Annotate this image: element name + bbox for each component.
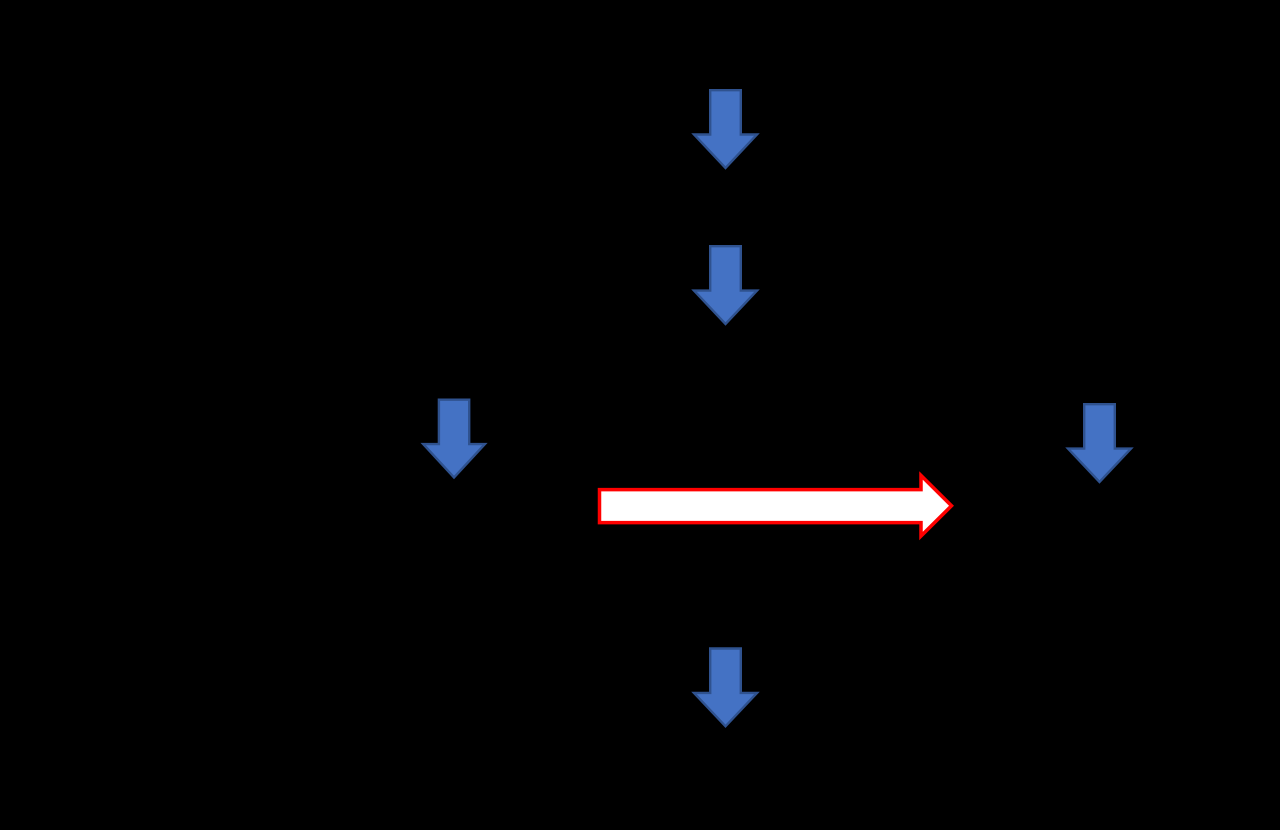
blue down arrow 2 (center, below arrow 1)	[694, 246, 757, 324]
blue down arrow 1 (top center)	[694, 90, 757, 168]
red-outlined white right arrow (center)	[600, 476, 952, 537]
blue down arrow 4 (right)	[1068, 404, 1131, 482]
blue down arrow 5 (bottom center)	[694, 649, 757, 727]
blue down arrow 3 (left)	[423, 400, 485, 478]
